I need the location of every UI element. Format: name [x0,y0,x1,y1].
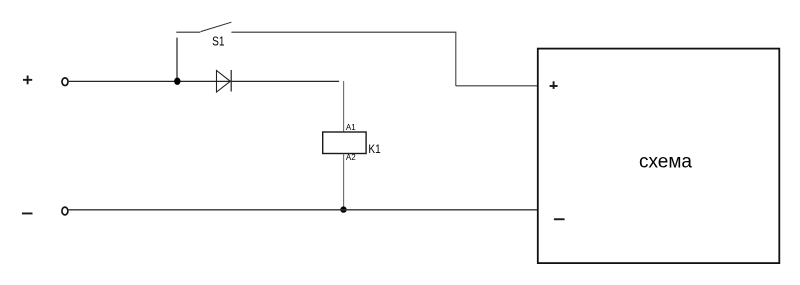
svg-text:схема: схема [639,151,692,172]
svg-text:K1: K1 [368,142,381,156]
svg-text:S1: S1 [212,34,224,49]
svg-text:A1: A1 [346,123,356,132]
svg-text:A2: A2 [346,153,356,162]
